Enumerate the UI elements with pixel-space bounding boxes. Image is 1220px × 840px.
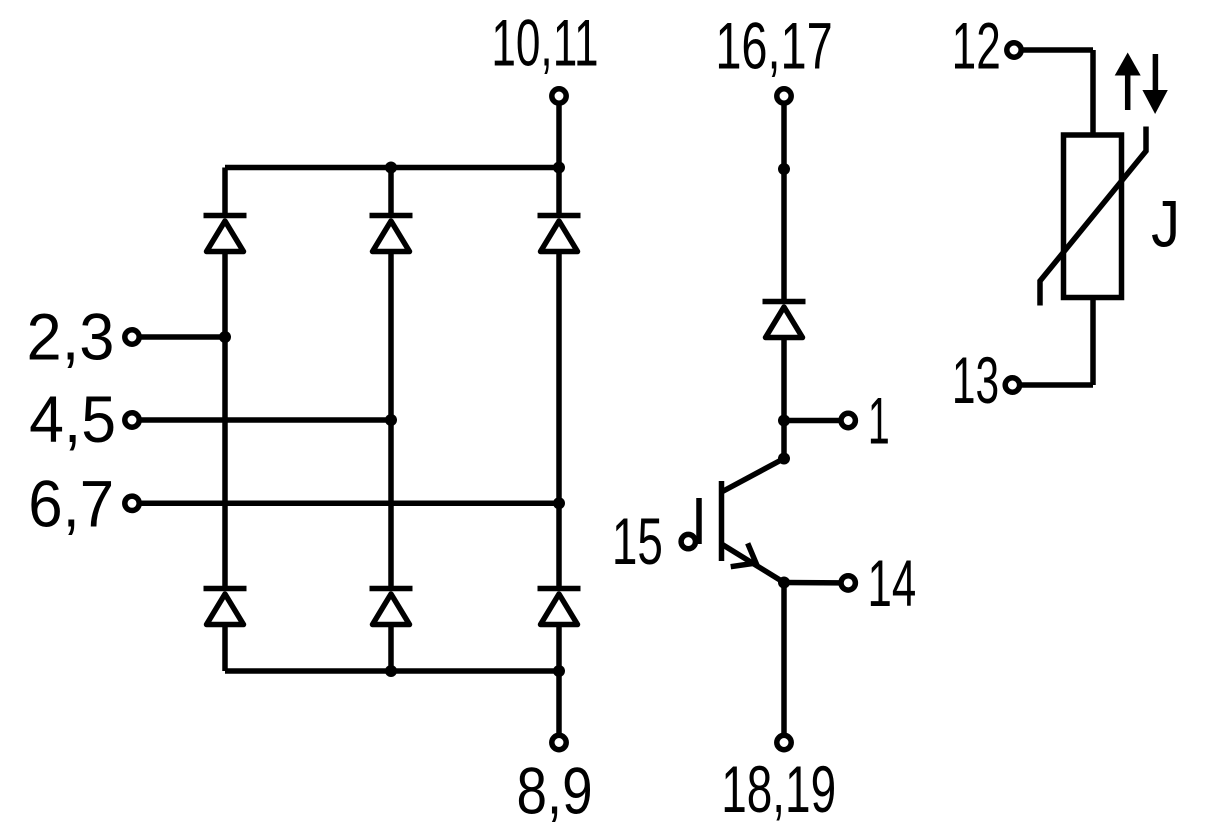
wire phase-2 column upper	[388, 168, 394, 216]
terminal circle 1	[841, 413, 855, 427]
wire DC- terminal lead	[556, 671, 562, 733]
diode D5 anode triangle	[373, 594, 410, 625]
diode D3 anode triangle	[541, 221, 578, 252]
wire emitter down lead	[781, 583, 787, 734]
thermistor R1 body	[1064, 135, 1122, 298]
junction dot node collector / terminal 1	[778, 415, 790, 427]
diode D2 cathode bar	[370, 213, 413, 219]
terminal circle 4,5	[125, 413, 139, 427]
current arrow down	[1142, 54, 1167, 114]
wire terminal-13 lead	[1021, 382, 1093, 388]
wire bottom DC- bus	[225, 668, 559, 674]
wire terminal-12 lead	[1022, 47, 1094, 53]
diode D7 cathode bar	[763, 299, 806, 305]
svg-text:1: 1	[868, 384, 890, 458]
wire AC input 6,7	[140, 501, 560, 507]
svg-text:6,7: 6,7	[28, 467, 114, 541]
diode D4 cathode bar	[204, 586, 247, 592]
current arrow up	[1115, 53, 1141, 111]
diode D6 anode triangle	[541, 594, 578, 625]
wire AC input 2,3	[140, 334, 226, 340]
terminal circle 8,9	[552, 735, 566, 749]
thermistor R1 diagonal	[1040, 127, 1146, 306]
terminal circle 15	[681, 534, 695, 548]
wire thermistor top lead	[1090, 50, 1096, 135]
svg-text:12: 12	[952, 8, 1001, 82]
svg-text:8,9: 8,9	[516, 754, 592, 828]
terminal circle 16,17	[777, 89, 791, 103]
terminal circle 14	[841, 576, 855, 590]
diode D2 anode triangle	[373, 221, 410, 252]
junction dot node 16,17 branch	[778, 163, 790, 175]
diode D5 cathode bar	[370, 586, 413, 592]
terminal circle 13	[1005, 378, 1019, 392]
svg-text:J: J	[1151, 188, 1180, 261]
diode D6 cathode bar	[538, 586, 581, 592]
transistor Q1 gate bar	[696, 498, 702, 544]
junction dot node top bus / phase-3	[553, 162, 565, 174]
wire phase-3 column upper	[556, 168, 562, 216]
transistor Q1 body bar	[719, 481, 725, 561]
terminal circle 6,7	[125, 496, 139, 510]
diode D1 cathode bar	[204, 213, 247, 219]
svg-text:15: 15	[612, 506, 663, 579]
wire phase-2 column lower	[388, 625, 394, 672]
junction dot node top bus / phase-2	[385, 162, 397, 174]
diode D1 anode triangle	[207, 221, 244, 252]
wire phase-3 column middle	[556, 252, 562, 589]
svg-text:2,3: 2,3	[27, 300, 115, 374]
wire emitter diagonal Q1	[722, 544, 785, 583]
diode D7 anode triangle	[766, 307, 803, 338]
junction dot node collector bend	[778, 453, 790, 465]
svg-text:14: 14	[867, 546, 916, 620]
junction dot node bottom bus / phase-3	[553, 665, 565, 677]
wire diode-to-collector	[781, 338, 787, 459]
diode D3 cathode bar	[538, 213, 581, 219]
wire terminal-14 stub	[784, 580, 841, 586]
wire 16,17 lead	[781, 105, 787, 302]
wire phase-1 column upper	[222, 168, 228, 216]
junction dot node 2,3 / phase-1	[219, 331, 231, 343]
wire top DC+ bus	[225, 165, 559, 171]
svg-text:13: 13	[952, 343, 999, 417]
svg-text:16,17: 16,17	[715, 10, 832, 84]
wire DC+ terminal lead	[556, 105, 562, 168]
wire phase-1 column middle	[222, 252, 228, 589]
junction dot node 6,7 / phase-3	[553, 497, 565, 509]
wire terminal-1 stub	[784, 418, 841, 424]
junction dot node bottom bus / phase-2	[385, 665, 397, 677]
wire collector diagonal Q1	[722, 459, 785, 493]
terminal circle 12	[1007, 43, 1021, 57]
wire phase-3 column lower	[556, 625, 562, 672]
terminal circle 18,19	[777, 735, 791, 749]
wire AC input 4,5	[140, 417, 392, 423]
wire thermistor bottom lead	[1090, 298, 1096, 386]
svg-text:10,11: 10,11	[491, 6, 598, 80]
wire phase-2 column middle	[388, 252, 394, 589]
terminal circle 10,11	[552, 89, 566, 103]
transistor Q1 emitter arrow	[731, 543, 756, 566]
diode D4 anode triangle	[207, 594, 244, 625]
junction dot node emitter / terminal 14	[778, 577, 790, 589]
svg-text:4,5: 4,5	[29, 382, 116, 456]
wire phase-1 column lower	[222, 625, 228, 672]
junction dot node 4,5 / phase-2	[385, 414, 397, 426]
svg-text:18,19: 18,19	[721, 754, 836, 827]
terminal circle 2,3	[125, 330, 139, 344]
